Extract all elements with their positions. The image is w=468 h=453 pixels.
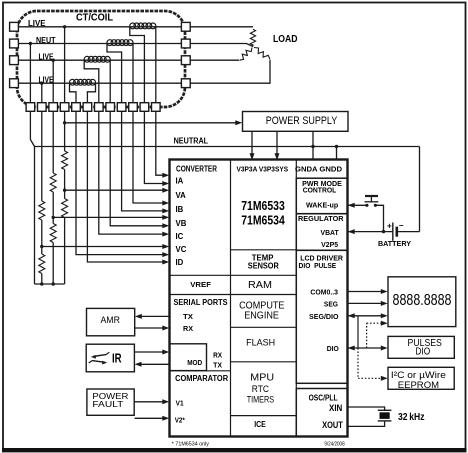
svg-text:NEUTRAL: NEUTRAL [174, 137, 209, 146]
terminal square right 2 [181, 39, 190, 48]
IC row line COMPUTE bottom [231, 326, 297, 328]
wire POWER FAULT to V1 [135, 399, 170, 404]
svg-text:XIN: XIN [329, 403, 343, 413]
pin label IB [176, 205, 184, 214]
resistor divider A lower [62, 199, 68, 218]
load resistor phase C [254, 48, 270, 60]
load resistor phase B [240, 48, 253, 61]
svg-text:OSC/PLL: OSC/PLL [309, 393, 338, 402]
pin label MOD RX [213, 350, 222, 359]
wire neutral-ground rail [35, 146, 420, 148]
wire NEUT [19, 43, 182, 45]
wire chain C mid [41, 220, 43, 254]
IC row line ICE top [231, 415, 297, 417]
pin label V1 [176, 398, 184, 407]
pin label IC [176, 232, 184, 241]
wire CT secondary IC- [99, 111, 169, 236]
wire chain A bottom [64, 218, 66, 285]
svg-text:RTC: RTC [252, 384, 270, 394]
wire CT secondary ID- [87, 111, 169, 264]
wire AMR to RX [135, 326, 170, 331]
wire LIVE A chain [64, 111, 66, 151]
wire phase B to load [190, 59, 239, 61]
IC column divider 1 [230, 160, 232, 437]
terminal square bottom 5 [72, 103, 81, 112]
svg-text:SERIAL PORTS: SERIAL PORTS [174, 298, 229, 307]
svg-text:VBAT: VBAT [321, 228, 340, 237]
svg-text:DIO PULSE: DIO PULSE [299, 261, 337, 270]
MOD box [170, 344, 207, 371]
POWER FAULT box [87, 389, 134, 415]
pin label VB [176, 219, 187, 228]
wire neutral to load [190, 44, 253, 47]
IC row line TEMP top [231, 249, 297, 251]
label ICE [254, 420, 266, 429]
terminal square bottom 8 [106, 103, 115, 112]
CT coil L2 [84, 56, 110, 102]
svg-text:CONVERTER: CONVERTER [176, 165, 217, 174]
svg-text:V2P5: V2P5 [321, 240, 338, 249]
pin label TX [183, 312, 193, 321]
label 8888.8888 [393, 292, 452, 309]
pin label VC [176, 245, 187, 254]
label COMPUTE ENGINE [239, 301, 285, 322]
pin label MOD TX [213, 361, 222, 370]
svg-text:LIVE: LIVE [39, 53, 54, 62]
svg-text:71M6534: 71M6534 [241, 213, 285, 227]
wire switch to battery plus [375, 205, 383, 231]
terminal square bottom 12 [152, 103, 161, 112]
IC 71M6533/34 outline [170, 160, 348, 437]
svg-text:FAULT: FAULT [92, 399, 124, 409]
IR opto symbol [89, 352, 110, 364]
label PULSES DIO [408, 338, 443, 358]
svg-text:SEG: SEG [324, 300, 338, 309]
node VC tap [40, 245, 43, 248]
svg-text:RAM: RAM [248, 279, 272, 291]
wire CT secondary IC+ [110, 111, 169, 228]
label IR [112, 352, 122, 366]
svg-text:DIO: DIO [327, 344, 339, 353]
svg-text:REGULATOR: REGULATOR [298, 214, 344, 223]
node LIVE A tap [63, 25, 66, 103]
node power supply tap [63, 121, 66, 124]
label LIVE B [39, 53, 54, 62]
svg-text:TX: TX [213, 361, 222, 370]
svg-text:COMPARATOR: COMPARATOR [175, 374, 228, 383]
wire SEG [348, 301, 388, 306]
svg-text:VREF: VREF [190, 280, 211, 289]
svg-text:ENGINE: ENGINE [244, 311, 279, 322]
node VA tap [63, 189, 66, 192]
terminal square bottom 9 [117, 103, 126, 112]
label CONVERTER [176, 165, 217, 174]
CT/COIL meter terminal box [17, 11, 185, 107]
svg-text:NEUT: NEUT [36, 36, 56, 45]
terminal square bottom 10 [129, 103, 138, 112]
label 71M6533 [241, 199, 285, 213]
wire IR to MOD RX [134, 350, 169, 355]
label PWR MODE CONTROL [302, 179, 342, 195]
terminal square left 4 [10, 79, 19, 88]
pin label SEG [324, 300, 338, 309]
label MPU RTC TIMERS [247, 371, 274, 404]
wire MOD TX to IR [135, 362, 170, 367]
wire PS ground drop [311, 131, 314, 159]
svg-text:CT/COIL: CT/COIL [76, 13, 113, 24]
wire V3P3SYS feed [275, 131, 280, 160]
wire LIVE phase A [19, 26, 182, 28]
svg-text:32 kHz: 32 kHz [398, 411, 425, 423]
pushbutton switch [365, 196, 379, 207]
svg-text:−: − [399, 221, 404, 230]
svg-text:IR: IR [112, 352, 122, 366]
svg-text:8888.8888: 8888.8888 [393, 292, 452, 309]
terminal square right 4 [181, 79, 190, 88]
power supply box [243, 112, 349, 132]
wire CT secondary IB- [122, 111, 170, 213]
resistor divider B upper [50, 173, 56, 192]
note date [324, 441, 344, 447]
svg-text:TX: TX [183, 312, 193, 321]
svg-text:VA: VA [176, 191, 187, 200]
wire LIVE phase C [19, 82, 182, 84]
svg-text:IB: IB [176, 205, 184, 214]
wire XIN [348, 407, 385, 410]
wire GNDD drop [335, 145, 338, 160]
svg-text:DIO: DIO [415, 347, 430, 358]
IC row line FLASH bottom [231, 361, 297, 363]
resistor divider A upper [62, 151, 68, 170]
terminal square right 3 [181, 56, 190, 65]
wire chain C bottom [41, 274, 43, 285]
svg-text:VC: VC [176, 245, 187, 254]
terminal square bottom 1 [26, 103, 35, 112]
svg-text:IA: IA [176, 177, 184, 186]
battery BT1 [387, 221, 404, 241]
wire SEG/DIO [348, 313, 388, 318]
terminal square bottom 7 [95, 103, 104, 112]
AMR box [87, 308, 135, 335]
svg-text:ID: ID [176, 258, 184, 267]
svg-text:FLASH: FLASH [246, 337, 275, 348]
pin label GNDA GNDD [295, 165, 343, 174]
pin label WAKE-up [306, 201, 339, 210]
pin label ID [176, 258, 184, 267]
wire VC to IC [42, 244, 169, 249]
CT coil neutral [107, 40, 133, 103]
resistor divider C upper [39, 201, 45, 220]
IC row line VREF/RAM top [170, 274, 297, 276]
svg-text:EEPROM: EEPROM [398, 380, 439, 391]
PULSES DIO box [388, 336, 454, 358]
label POWER SUPPLY [266, 115, 338, 127]
wire rail to battery minus [419, 147, 421, 232]
IC column divider 2 [295, 160, 297, 437]
PWR MODE CONTROL box [296, 178, 347, 214]
note 71M6534 only [172, 441, 209, 447]
svg-text:V3P3A V3P3SYS: V3P3A V3P3SYS [237, 165, 289, 174]
wire to power supply [65, 120, 243, 125]
node VB tap [52, 216, 55, 219]
terminal square bottom 3 [49, 103, 58, 112]
label 32 kHz [398, 411, 425, 423]
CT coil L3 [70, 79, 96, 102]
terminal square bottom 2 [38, 103, 47, 112]
LCD display box [388, 277, 456, 327]
EEPROM box [388, 367, 454, 389]
label MOD [187, 358, 202, 367]
label POWER FAULT [92, 391, 128, 409]
wire LIVE C chain [41, 111, 43, 201]
svg-text:71M6533: 71M6533 [241, 199, 285, 213]
IR box [86, 344, 134, 372]
wire chain A mid [64, 170, 66, 199]
node LIVE B tap [52, 59, 55, 103]
label OSC/PLL [309, 393, 338, 402]
svg-text:RX: RX [183, 324, 193, 333]
label RAM [248, 279, 272, 291]
wire LIVE B chain [52, 111, 54, 173]
wire V3P3A feed [250, 131, 255, 160]
wire WAKE-up to switch [348, 203, 367, 208]
node NEUT tap [29, 42, 32, 103]
pin label COM0..3 [310, 287, 338, 296]
svg-text:BATTERY: BATTERY [378, 241, 411, 248]
wire DIO to LCD (optional) [367, 321, 388, 348]
label NEUTRAL [174, 137, 209, 146]
wire COM0..3 [348, 289, 388, 294]
svg-text:V2*: V2* [175, 415, 185, 424]
terminal square left 1 [10, 22, 19, 31]
wire divider common rail [35, 282, 65, 285]
resistor divider B lower [50, 224, 56, 243]
svg-text:V1: V1 [176, 398, 184, 407]
crystal Y1 32kHz [378, 410, 392, 421]
OSC/PLL box [296, 389, 347, 437]
svg-text:RX: RX [213, 350, 222, 359]
svg-text:ICE: ICE [254, 420, 266, 429]
label LIVE A [28, 19, 46, 28]
label AMR [100, 315, 120, 325]
label CT/COIL [76, 13, 113, 24]
wire LIVE phase B [19, 59, 182, 61]
label TEMP SENSOR [248, 253, 279, 270]
svg-text:AMR: AMR [100, 315, 120, 325]
svg-text:* 71M6534 only: * 71M6534 only [172, 441, 209, 447]
terminal square bottom 4 [60, 103, 69, 112]
wire XOUT [348, 421, 385, 427]
resistor divider C lower [39, 254, 45, 274]
label REGULATOR [298, 214, 344, 223]
label LOAD [273, 33, 298, 45]
wire to V2* [135, 416, 170, 421]
label SERIAL PORTS [174, 298, 229, 307]
svg-text:COM0..3: COM0..3 [310, 287, 338, 296]
svg-text:LOAD: LOAD [273, 33, 298, 45]
terminal square right 1 [181, 22, 190, 31]
wire phase A to load [190, 26, 253, 28]
svg-text:CONTROL: CONTROL [303, 186, 337, 195]
svg-text:MPU: MPU [250, 371, 274, 383]
wire CT secondary IA- [144, 111, 169, 186]
IC row line COMPARATOR top [170, 370, 231, 372]
pin label RX [183, 324, 193, 333]
pin label DIO [327, 344, 339, 353]
pin label V3P3A V3P3SYS [237, 165, 289, 174]
pin label XIN [329, 403, 343, 413]
terminal square left 2 [10, 39, 19, 48]
wire DIO [348, 346, 388, 351]
label BATTERY [378, 241, 411, 248]
wire VA to IC [65, 188, 170, 193]
svg-text:LIVE: LIVE [28, 19, 46, 28]
wire NEUT drop to rail [30, 111, 34, 146]
label LCD DRIVER DIO PULSE [299, 253, 344, 270]
svg-text:VB: VB [176, 219, 187, 228]
terminal square bottom 6 [83, 103, 92, 112]
svg-text:POWER SUPPLY: POWER SUPPLY [266, 115, 338, 127]
pin label IA [176, 177, 184, 186]
svg-text:SEG/DIO: SEG/DIO [309, 312, 339, 321]
svg-text:TIMERS: TIMERS [247, 395, 274, 405]
svg-text:WAKE-up: WAKE-up [306, 201, 339, 210]
wire CT secondary ID+ [76, 111, 169, 257]
wire chain B mid [52, 192, 54, 224]
label I2C or uWire EEPROM [391, 370, 446, 391]
REGULATOR box [296, 214, 347, 251]
LCD DRIVER box [296, 250, 347, 383]
svg-text:GNDA GNDD: GNDA GNDD [295, 165, 343, 174]
wire phase C to load [190, 60, 270, 83]
wire chain B bottom [52, 243, 54, 285]
pin label VBAT [321, 228, 340, 237]
svg-text:IC: IC [176, 232, 184, 241]
pin label V2P5 [321, 240, 338, 249]
label NEUT [36, 36, 56, 45]
wire SEG/DIO to EEPROM (optional) [358, 316, 388, 381]
svg-text:MOD: MOD [187, 358, 202, 367]
load resistor phase A [250, 29, 255, 46]
label FLASH [246, 337, 275, 348]
wire CT secondary IB+ [133, 111, 169, 205]
wire TX to AMR [135, 314, 170, 319]
svg-text:9/24/2008: 9/24/2008 [324, 441, 344, 447]
label VREF [190, 280, 211, 289]
wire VB to IC [53, 215, 169, 220]
wire CT secondary IA+ [156, 111, 169, 177]
svg-text:XOUT: XOUT [322, 420, 343, 430]
pin label XOUT [322, 420, 343, 430]
svg-text:SENSOR: SENSOR [248, 261, 279, 270]
node LIVE C tap [40, 82, 43, 103]
pin label V2* [175, 415, 185, 424]
wire VBAT to battery [348, 229, 393, 234]
label 71M6534 [241, 213, 285, 227]
wire battery minus [397, 231, 420, 233]
CT coil L1 (top LIVE) [130, 23, 156, 103]
label LIVE C [39, 76, 54, 85]
wire neutral to divider common [34, 147, 36, 285]
pin label VA [176, 191, 187, 200]
terminal square bottom 11 [140, 103, 149, 112]
svg-text:+: + [387, 222, 392, 231]
label COMPARATOR [175, 374, 228, 383]
terminal square left 3 [10, 56, 19, 65]
IC row line VREF/RAM bottom [170, 294, 297, 296]
pin label SEG/DIO [309, 312, 339, 321]
